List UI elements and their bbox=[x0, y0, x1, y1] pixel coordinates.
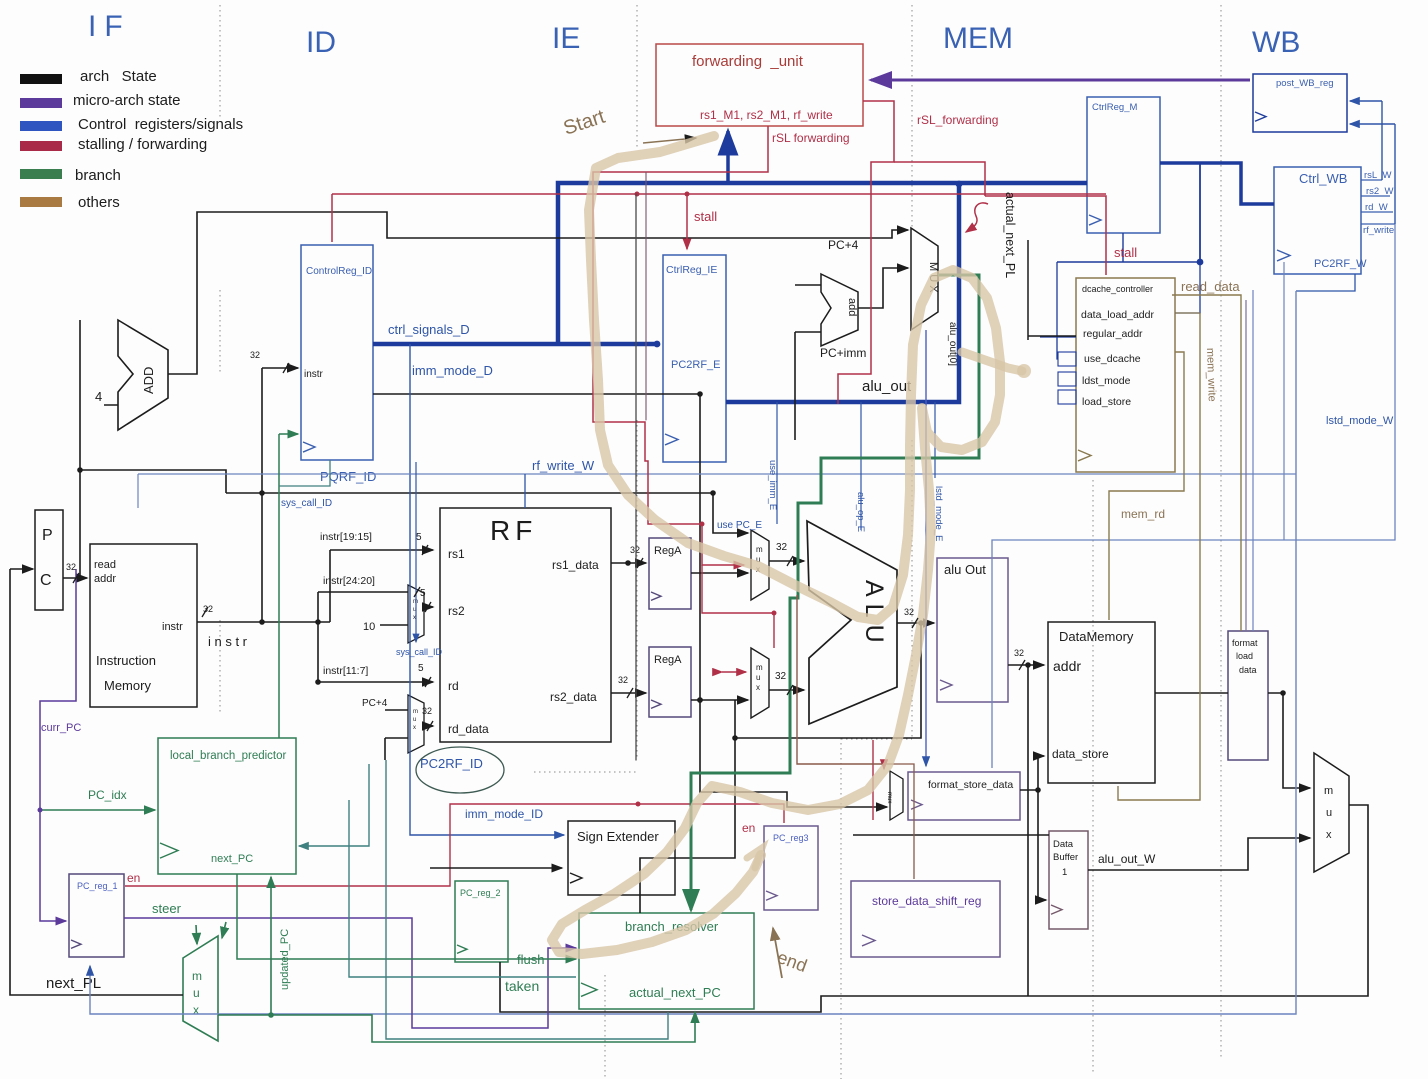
svg-text:use_imm_E: use_imm_E bbox=[767, 460, 778, 510]
svg-text:steer: steer bbox=[152, 901, 182, 916]
svg-text:ldst_mode: ldst_mode bbox=[1082, 375, 1131, 387]
svg-text:alu_out: alu_out bbox=[862, 378, 912, 395]
svg-text:Instruction: Instruction bbox=[96, 653, 156, 668]
svg-text:micro-arch state: micro-arch state bbox=[73, 92, 181, 109]
svg-text:x: x bbox=[193, 1003, 199, 1017]
svg-text:Memory: Memory bbox=[104, 678, 151, 693]
svg-text:en: en bbox=[742, 821, 755, 835]
svg-text:others: others bbox=[78, 194, 120, 211]
svg-text:PC+imm: PC+imm bbox=[820, 346, 866, 360]
svg-text:instr[11:7]: instr[11:7] bbox=[323, 665, 368, 677]
svg-text:addr: addr bbox=[94, 573, 116, 585]
svg-text:u: u bbox=[756, 673, 760, 682]
svg-text:use PC_E: use PC_E bbox=[717, 520, 762, 531]
svg-text:use_dcache: use_dcache bbox=[1084, 353, 1141, 365]
svg-text:curr_PC: curr_PC bbox=[41, 722, 81, 734]
svg-text:branch: branch bbox=[75, 167, 121, 184]
svg-text:Buffer: Buffer bbox=[1053, 852, 1078, 863]
svg-text:IE: IE bbox=[552, 22, 580, 55]
svg-text:WB: WB bbox=[1252, 26, 1300, 59]
svg-text:Sign Extender: Sign Extender bbox=[577, 829, 659, 844]
svg-text:rf_write_W: rf_write_W bbox=[532, 458, 595, 473]
svg-text:RF: RF bbox=[490, 515, 537, 546]
svg-text:CtrlReg_IE: CtrlReg_IE bbox=[666, 264, 717, 276]
svg-text:i n s t r: i n s t r bbox=[208, 634, 248, 649]
svg-text:5: 5 bbox=[416, 532, 422, 543]
svg-text:rs2_W: rs2_W bbox=[1366, 186, 1393, 197]
svg-text:x: x bbox=[1326, 829, 1332, 841]
svg-text:PC_idx: PC_idx bbox=[88, 788, 127, 802]
svg-text:1: 1 bbox=[1062, 867, 1067, 878]
svg-text:instr[24:20]: instr[24:20] bbox=[323, 575, 375, 587]
svg-text:load_store: load_store bbox=[1082, 396, 1131, 408]
svg-text:rSL_forwarding: rSL_forwarding bbox=[917, 113, 998, 127]
svg-text:store_data_shift_reg: store_data_shift_reg bbox=[872, 894, 981, 908]
svg-text:data_store: data_store bbox=[1052, 747, 1109, 761]
svg-text:post_WB_reg: post_WB_reg bbox=[1276, 78, 1334, 89]
svg-text:5: 5 bbox=[420, 588, 426, 599]
svg-text:rd_data: rd_data bbox=[448, 722, 489, 736]
svg-text:taken: taken bbox=[505, 978, 539, 994]
svg-text:32: 32 bbox=[250, 350, 260, 360]
svg-text:10: 10 bbox=[363, 621, 375, 633]
svg-text:imm_mode_ID: imm_mode_ID bbox=[465, 807, 543, 821]
svg-text:stalling / forwarding: stalling / forwarding bbox=[78, 136, 207, 153]
svg-text:rSL forwarding: rSL forwarding bbox=[772, 131, 850, 145]
svg-text:data: data bbox=[1239, 665, 1257, 675]
svg-text:rs1: rs1 bbox=[448, 547, 465, 561]
svg-text:next_PL: next_PL bbox=[46, 975, 101, 992]
svg-text:alu_out_W: alu_out_W bbox=[1098, 852, 1156, 866]
svg-text:rsL_W: rsL_W bbox=[1364, 170, 1391, 181]
svg-text:rd_W: rd_W bbox=[1365, 202, 1388, 213]
svg-text:m: m bbox=[756, 545, 763, 554]
svg-text:C: C bbox=[40, 572, 52, 589]
svg-text:mem_rd: mem_rd bbox=[1121, 507, 1165, 521]
svg-text:flush: flush bbox=[517, 952, 544, 967]
svg-text:rs2: rs2 bbox=[448, 604, 465, 618]
svg-text:sys_call_ID: sys_call_ID bbox=[281, 498, 332, 509]
svg-text:u: u bbox=[193, 986, 200, 1000]
svg-text:PC+4: PC+4 bbox=[828, 238, 859, 252]
svg-text:format: format bbox=[1232, 638, 1258, 648]
svg-text:format_store_data: format_store_data bbox=[928, 779, 1013, 791]
svg-text:mux: mux bbox=[886, 792, 892, 803]
svg-text:lstd_mode_W: lstd_mode_W bbox=[1326, 415, 1394, 427]
svg-text:ControlReg_ID: ControlReg_ID bbox=[306, 266, 372, 277]
svg-text:addr: addr bbox=[1053, 658, 1081, 674]
svg-text:MEM: MEM bbox=[943, 22, 1013, 55]
svg-text:RegA: RegA bbox=[654, 545, 682, 557]
svg-text:32: 32 bbox=[1014, 648, 1024, 658]
svg-text:forwarding _unit: forwarding _unit bbox=[692, 53, 804, 70]
svg-text:mem_write: mem_write bbox=[1204, 348, 1218, 402]
svg-text:Data: Data bbox=[1053, 839, 1074, 850]
svg-text:x: x bbox=[413, 725, 416, 731]
svg-text:ctrl_signals_D: ctrl_signals_D bbox=[388, 322, 470, 337]
svg-text:x: x bbox=[756, 683, 760, 692]
svg-text:alu_out[0]: alu_out[0] bbox=[947, 322, 958, 366]
svg-text:updated_PC: updated_PC bbox=[279, 929, 291, 990]
svg-text:32: 32 bbox=[618, 675, 628, 685]
svg-text:actual_next_PC: actual_next_PC bbox=[629, 985, 721, 1000]
svg-text:32: 32 bbox=[630, 545, 640, 555]
svg-text:DataMemory: DataMemory bbox=[1059, 629, 1134, 644]
svg-text:PQRF_ID: PQRF_ID bbox=[320, 469, 376, 484]
svg-text:imm_mode_D: imm_mode_D bbox=[412, 363, 493, 378]
svg-text:IF: IF bbox=[88, 10, 131, 43]
svg-text:5: 5 bbox=[418, 663, 424, 674]
svg-text:data_load_addr: data_load_addr bbox=[1081, 309, 1154, 321]
svg-text:32: 32 bbox=[422, 706, 432, 716]
svg-text:alu Out: alu Out bbox=[944, 562, 986, 577]
svg-text:rs1_M1, rs2_M1, rf_write: rs1_M1, rs2_M1, rf_write bbox=[700, 108, 833, 122]
svg-text:PC+4: PC+4 bbox=[362, 698, 388, 709]
svg-text:sys_call_ID: sys_call_ID bbox=[396, 647, 443, 657]
svg-text:u: u bbox=[1326, 807, 1332, 819]
svg-text:en: en bbox=[127, 871, 140, 885]
svg-text:dcache_controller: dcache_controller bbox=[1082, 284, 1153, 294]
svg-text:regular_addr: regular_addr bbox=[1083, 328, 1143, 340]
svg-text:m: m bbox=[413, 709, 418, 715]
svg-text:PC_reg_2: PC_reg_2 bbox=[460, 888, 501, 898]
svg-text:add: add bbox=[846, 298, 858, 316]
svg-text:read_data: read_data bbox=[1181, 279, 1240, 294]
svg-text:P: P bbox=[42, 527, 53, 544]
svg-text:PC_reg_1: PC_reg_1 bbox=[77, 881, 118, 891]
svg-text:ADD: ADD bbox=[141, 367, 156, 394]
svg-text:rd: rd bbox=[448, 679, 459, 693]
svg-text:ID: ID bbox=[306, 26, 336, 59]
svg-text:PC2RF_W: PC2RF_W bbox=[1314, 258, 1367, 270]
svg-text:local_branch_predictor: local_branch_predictor bbox=[170, 750, 287, 762]
svg-text:m: m bbox=[1324, 785, 1333, 797]
svg-text:4: 4 bbox=[95, 389, 102, 404]
svg-text:instr: instr bbox=[162, 621, 183, 633]
svg-text:m: m bbox=[756, 663, 763, 672]
svg-text:instr: instr bbox=[304, 369, 324, 380]
svg-text:alu_op_E: alu_op_E bbox=[855, 492, 866, 532]
svg-text:u: u bbox=[413, 717, 416, 723]
svg-text:instr[19:15]: instr[19:15] bbox=[320, 531, 372, 543]
svg-text:actual_next_PL: actual_next_PL bbox=[1003, 192, 1017, 278]
svg-text:32: 32 bbox=[904, 607, 914, 617]
svg-text:stall: stall bbox=[694, 209, 717, 224]
svg-text:CtrlReg_M: CtrlReg_M bbox=[1092, 102, 1137, 113]
svg-text:rs1_data: rs1_data bbox=[552, 558, 599, 572]
svg-text:Control registers/signals: Control registers/signals bbox=[78, 116, 243, 133]
svg-text:read: read bbox=[94, 559, 116, 571]
svg-text:m: m bbox=[192, 969, 202, 983]
svg-text:32: 32 bbox=[66, 562, 76, 572]
svg-text:PC_reg3: PC_reg3 bbox=[773, 833, 809, 843]
svg-text:32: 32 bbox=[776, 542, 788, 553]
svg-text:Ctrl_WB: Ctrl_WB bbox=[1299, 171, 1347, 186]
svg-text:next_PC: next_PC bbox=[211, 853, 253, 865]
svg-text:stall: stall bbox=[1114, 245, 1137, 260]
svg-text:load: load bbox=[1236, 651, 1253, 661]
svg-text:32: 32 bbox=[775, 671, 787, 682]
svg-text:PC2RF_ID: PC2RF_ID bbox=[420, 756, 483, 771]
svg-text:rf_write: rf_write bbox=[1363, 225, 1394, 236]
svg-text:PC2RF_E: PC2RF_E bbox=[671, 359, 721, 371]
svg-text:arch State: arch State bbox=[80, 68, 157, 85]
svg-text:RegA: RegA bbox=[654, 654, 682, 666]
svg-text:rs2_data: rs2_data bbox=[550, 690, 597, 704]
